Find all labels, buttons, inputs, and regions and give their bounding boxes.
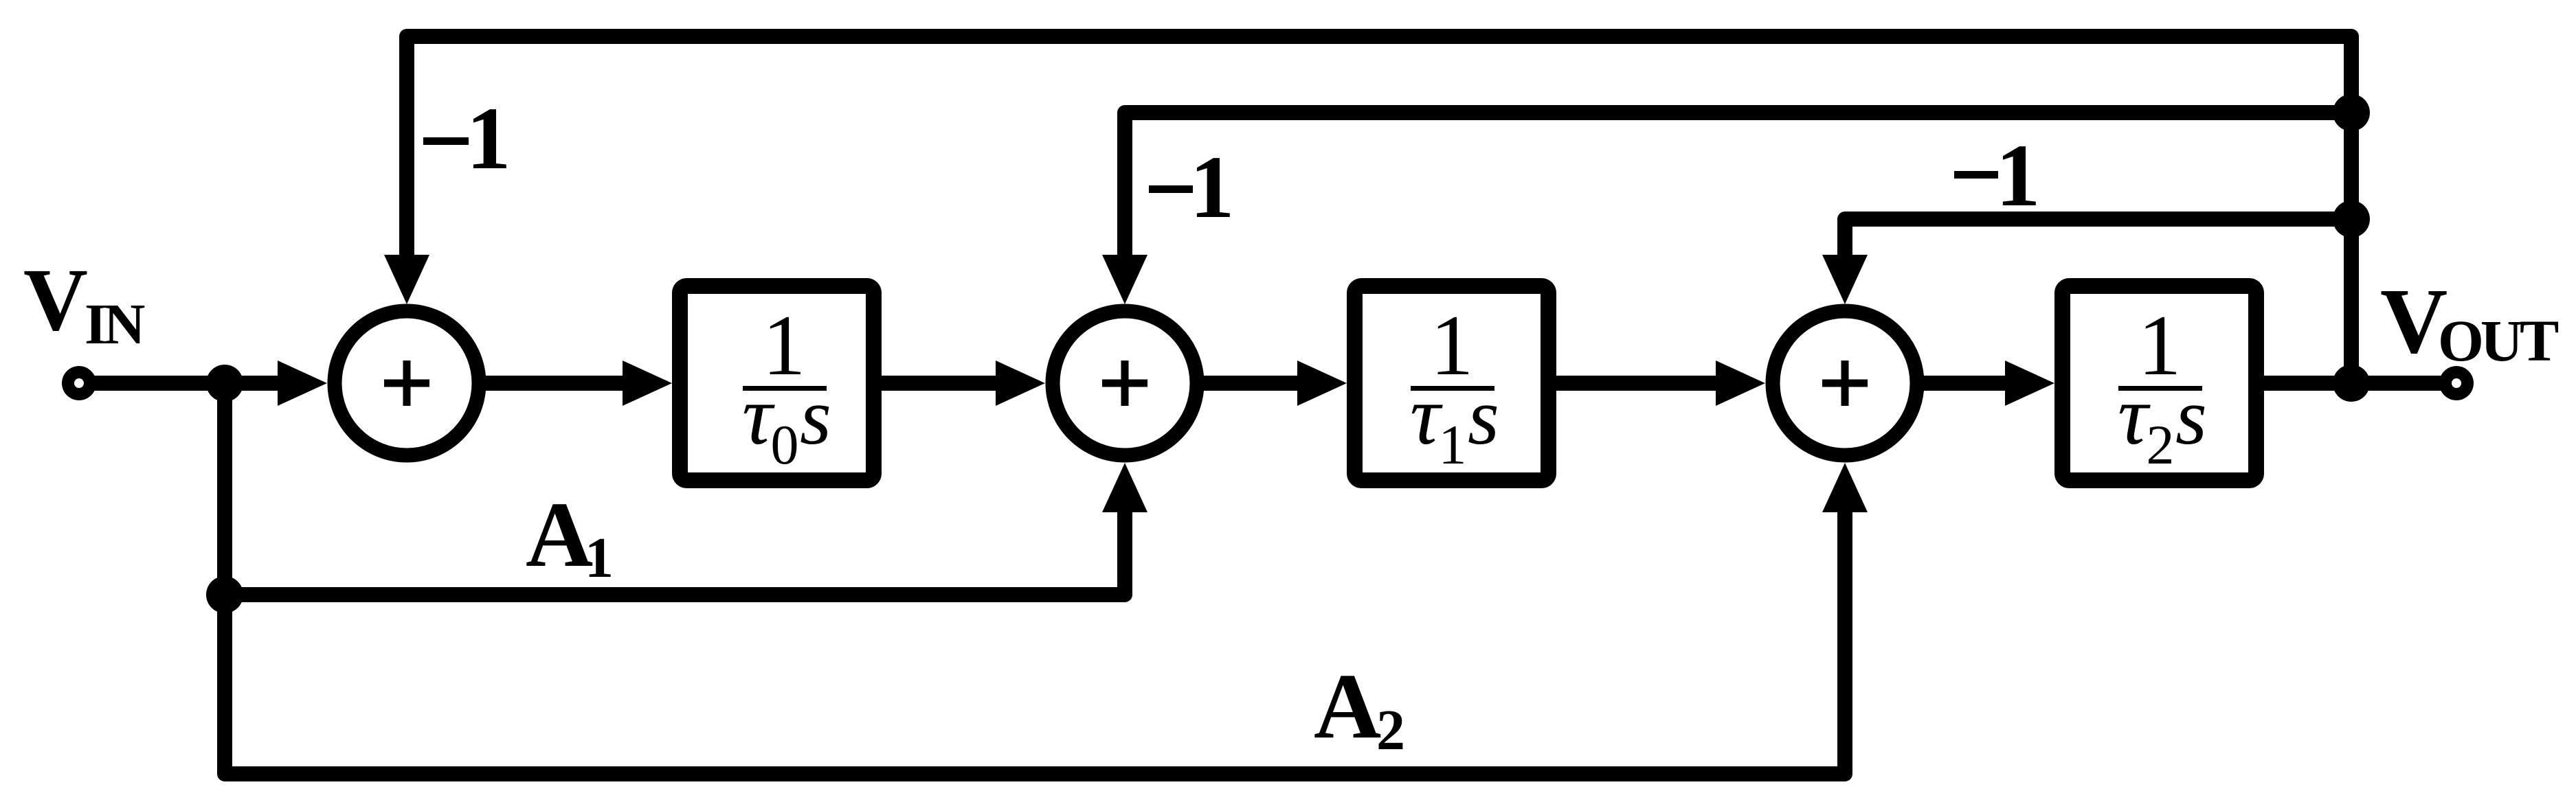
svg-text:V: V: [23, 251, 88, 350]
node F3 output junction: [2333, 201, 2370, 238]
wire input branch trunk and A2 path: [225, 383, 1868, 774]
wire B2 to summer S3: [1556, 361, 1765, 406]
node output junction: [2333, 365, 2370, 402]
svg-text:s: s: [2175, 372, 2207, 461]
svg-text:1: 1: [585, 526, 614, 590]
label VOUT: [2380, 270, 2559, 374]
label -1 F1: [423, 89, 511, 188]
block B2 1/tau1s: [1355, 286, 1549, 481]
svg-text:s: s: [800, 372, 831, 461]
svg-text:0: 0: [771, 413, 799, 476]
svg-text:1: 1: [467, 89, 511, 188]
summer S2: [1053, 311, 1197, 455]
svg-text:1: 1: [1996, 126, 2041, 225]
svg-text:IN: IN: [85, 293, 145, 356]
svg-text:A: A: [1314, 655, 1381, 758]
svg-text:2: 2: [1376, 698, 1405, 762]
wire S1 to block B1: [479, 361, 672, 406]
wire feedback F1: [384, 36, 2351, 374]
block B3 1/tau2s: [2063, 286, 2256, 481]
svg-text:A: A: [526, 483, 593, 586]
input terminal: [62, 366, 96, 400]
wire B3 to VOUT: [2264, 376, 2456, 391]
wire S3 to block B3: [1917, 361, 2054, 406]
label VIN: [23, 251, 145, 356]
label -1 F3: [1954, 126, 2041, 225]
summer S3: [1773, 311, 1917, 455]
wire feedback F2: [1102, 113, 2351, 304]
summer S1: [335, 311, 479, 455]
label -1 F2: [1149, 138, 1235, 237]
wire feedback F3: [1822, 219, 2351, 304]
label A1: [526, 483, 614, 590]
label A2: [1314, 655, 1405, 762]
node A1 branch junction: [206, 576, 243, 613]
svg-text:OUT: OUT: [2438, 308, 2559, 374]
block B1 1/tau0s: [680, 286, 874, 481]
node F2 output junction: [2333, 94, 2370, 131]
wire S2 to block B2: [1197, 361, 1347, 406]
svg-text:2: 2: [2147, 413, 2175, 476]
svg-text:1: 1: [1190, 138, 1235, 237]
wire B1 to summer S2: [882, 361, 1045, 406]
node input branch junction: [206, 365, 243, 402]
svg-text:1: 1: [1439, 413, 1467, 476]
svg-text:s: s: [1468, 372, 1499, 461]
wire VIN to summer S1: [79, 361, 327, 406]
terminal VOUT: [2439, 366, 2474, 400]
wire A1 path: [225, 463, 1147, 595]
